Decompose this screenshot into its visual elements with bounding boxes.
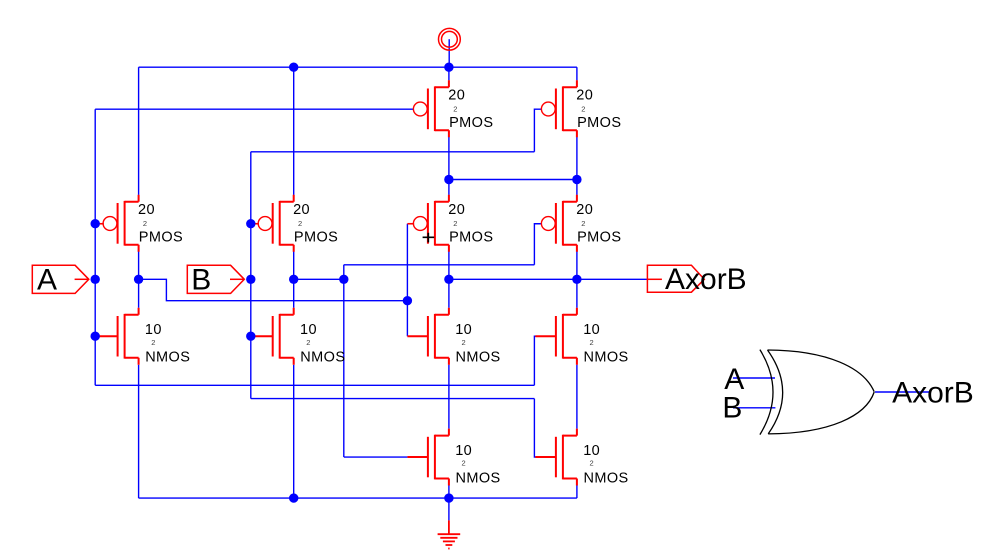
junction ground tap: [444, 493, 453, 502]
svg-text:20: 20: [448, 202, 465, 218]
svg-text:2: 2: [462, 459, 466, 468]
junction B-inverter output: [289, 275, 298, 284]
svg-text:NMOS: NMOS: [456, 350, 501, 366]
svg-text:10: 10: [145, 322, 162, 338]
svg-text:NMOS: NMOS: [145, 350, 190, 366]
wire M7 source to M11 drain: [448, 365, 450, 429]
svg-text:PMOS: PMOS: [449, 115, 493, 131]
XOR gate symbol outline: [760, 350, 874, 435]
junction output row column 3: [444, 275, 453, 284]
junction ground rail column B: [289, 493, 298, 502]
transistor U2 PMOS 20/2 top row column 4: [541, 80, 621, 137]
junction port B: [246, 275, 255, 284]
svg-text:2: 2: [581, 105, 585, 114]
svg-text:AxorB: AxorB: [892, 376, 974, 409]
junction node Y left: [444, 175, 453, 184]
wire net nB to M11 gate: [344, 456, 408, 458]
svg-text:PMOS: PMOS: [449, 230, 493, 246]
wire output row to AxorB port: [449, 278, 648, 280]
svg-text:AxorB: AxorB: [665, 263, 747, 296]
svg-text:NMOS: NMOS: [584, 470, 629, 486]
svg-text:NMOS: NMOS: [456, 470, 501, 486]
wire net nB upper horizontal: [344, 264, 535, 266]
svg-text:2: 2: [581, 219, 585, 228]
wire U2 source to node Y: [576, 137, 578, 195]
transistor U4 PMOS 20/2 second row column 4: [541, 195, 621, 252]
junction port A: [91, 275, 100, 284]
junction net nB column: [339, 275, 348, 284]
wire net B vertical: [250, 152, 252, 399]
wire net A riser to M8 gate: [534, 336, 536, 385]
wire net nB horizontal on port row: [294, 278, 344, 280]
junction U5 gate: [91, 219, 100, 228]
svg-text:10: 10: [455, 443, 472, 459]
wire column B NMOS source to ground rail: [293, 365, 295, 498]
wire VDD symbol stem: [448, 39, 450, 67]
svg-text:PMOS: PMOS: [577, 115, 621, 131]
svg-text:20: 20: [138, 202, 155, 218]
svg-text:2: 2: [453, 219, 457, 228]
wire column A inverter output: [138, 250, 140, 308]
svg-text:2: 2: [298, 219, 302, 228]
wire U3 source to output row: [448, 250, 450, 308]
transistor U6 PMOS 20/2 B-inverter pull-up: [258, 195, 338, 252]
wire M8 source to M12 drain: [576, 365, 578, 429]
svg-text:PMOS: PMOS: [294, 230, 338, 246]
wire M11 source to ground rail: [448, 485, 450, 498]
wire VDD feed column A: [138, 67, 140, 195]
wire VDD rail: [139, 66, 577, 68]
svg-text:10: 10: [583, 443, 600, 459]
wire VDD feed U2: [576, 67, 578, 80]
junction node Y right: [572, 175, 581, 184]
svg-text:B: B: [191, 264, 211, 297]
svg-text:2: 2: [590, 338, 594, 347]
svg-text:NMOS: NMOS: [584, 350, 629, 366]
wire net A bottom horizontal: [95, 384, 534, 386]
wire net A vertical: [94, 109, 96, 385]
transistor M12 NMOS 10/2 fourth row column 4: [535, 429, 628, 487]
svg-text:20: 20: [293, 202, 310, 218]
svg-text:20: 20: [576, 202, 593, 218]
wire VDD feed column B: [293, 67, 295, 195]
port B input tag: [187, 264, 244, 297]
svg-text:NMOS: NMOS: [300, 350, 345, 366]
svg-text:B: B: [722, 391, 742, 424]
port AxorB output tag: [647, 263, 746, 296]
wire net nB vertical: [343, 265, 345, 457]
gate lead U3: [407, 223, 414, 225]
svg-text:PMOS: PMOS: [577, 230, 621, 246]
wire XOR gate input A: [733, 377, 775, 379]
wire U4 source to output row: [576, 250, 578, 308]
VDD power symbol double circle: [439, 28, 461, 50]
wire net nA vertical U3 gate to M7 gate: [406, 224, 408, 337]
wire M12 source to ground rail: [576, 485, 578, 498]
junction M1 gate: [91, 332, 100, 341]
svg-text:PMOS: PMOS: [139, 230, 183, 246]
transistor U3 PMOS 20/2 second row column 3: [413, 195, 493, 252]
wire net B top horizontal: [251, 151, 535, 153]
svg-text:10: 10: [455, 322, 472, 338]
origin cross marker on U3: [423, 233, 435, 243]
transistor U5 PMOS 20/2 A-inverter pull-up: [103, 195, 183, 252]
transistor M11 NMOS 10/2 fourth row column 3: [407, 429, 500, 487]
wire ground stem: [448, 498, 450, 520]
wire XOR gate output: [875, 391, 931, 393]
gate lead U5: [95, 223, 104, 225]
port A input tag: [32, 264, 89, 297]
junction net nA: [403, 296, 412, 305]
svg-text:20: 20: [576, 88, 593, 104]
wire net A to U1 gate: [95, 108, 413, 110]
svg-text:2: 2: [590, 459, 594, 468]
transistor M7 NMOS 10/2 third row column 3: [407, 308, 500, 366]
junction rail column B: [289, 62, 298, 71]
wire net nA jog from A-inverter output: [139, 279, 408, 300]
wire net B bottom horizontal: [251, 398, 535, 400]
junction output row column 4: [572, 275, 581, 284]
transistor M8 NMOS 10/2 third row column 4: [535, 308, 628, 366]
svg-text:2: 2: [462, 338, 466, 347]
gate lead U6: [251, 223, 259, 225]
svg-text:A: A: [37, 264, 57, 297]
wire ground rail: [139, 497, 577, 499]
wire column B inverter output: [293, 250, 295, 308]
wire node Y horizontal: [449, 179, 577, 181]
wire XOR gate input B: [733, 407, 775, 409]
wire U1 source to node Y: [448, 137, 450, 195]
ground symbol: [438, 520, 461, 548]
wire column A NMOS source to ground rail: [138, 365, 140, 498]
transistor M1 NMOS 10/2 A-inverter pull-down: [97, 308, 190, 366]
junction A-inverter output: [134, 275, 143, 284]
wire net B riser to U2 gate: [534, 109, 541, 152]
junction M2 gate: [246, 332, 255, 341]
junction U6 gate: [246, 219, 255, 228]
svg-text:2: 2: [453, 105, 457, 114]
wire net B drop to M12 gate: [534, 399, 536, 457]
wire net nB riser to U4 gate: [534, 224, 541, 265]
svg-text:2: 2: [306, 338, 310, 347]
svg-text:10: 10: [583, 322, 600, 338]
svg-text:20: 20: [448, 88, 465, 104]
svg-text:2: 2: [143, 219, 147, 228]
wire VDD feed U1: [448, 67, 450, 80]
transistor U1 PMOS 20/2 top row column 3: [413, 80, 493, 137]
transistor M2 NMOS 10/2 B-inverter pull-down: [252, 308, 345, 366]
svg-text:2: 2: [151, 338, 155, 347]
svg-text:10: 10: [300, 322, 317, 338]
junction VDD tap: [444, 62, 453, 71]
